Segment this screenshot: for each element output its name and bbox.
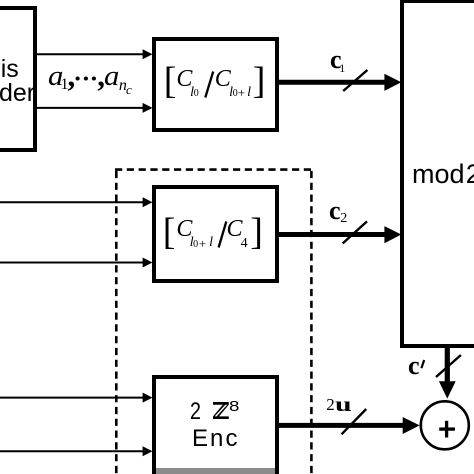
block U2: quotient encoder [C_l0+l / C_4] (152, 185, 279, 283)
wire b1 (input to C_l0+l box, top) (0, 197, 153, 207)
block U1: quotient encoder [C_l0 / C_l0+l] (152, 37, 279, 132)
wire 2u (thick bus to adder) (279, 417, 420, 434)
label 2u (326, 396, 335, 413)
label 'der' inside encoder block (0, 81, 35, 106)
slash on c1 bus (343, 70, 367, 91)
block U4: mod-2 combiner (clipped at right edge) (400, 0, 474, 348)
dashed subsystem boundary (115, 170, 313, 474)
comma after a_1 (68, 60, 76, 91)
slash on 2u bus (342, 409, 367, 434)
prime tick of label c' (421, 360, 424, 368)
slash on c' bus (436, 355, 461, 377)
wire a2 (encoder to C_l0 box, bottom) (37, 103, 153, 113)
slash on c2 bus (343, 221, 367, 243)
formula slash in U1 (205, 72, 213, 98)
label c' (408, 353, 420, 379)
label 2 of 2Z8 (190, 400, 201, 424)
plus sign of adder (439, 421, 455, 438)
wire u1 (input to Z8 encoder, top) (0, 393, 153, 403)
wire b2 (input to C_l0+l box, bottom) (0, 258, 153, 268)
dots of label a_1,...,a_nc (76, 76, 96, 80)
wire c1 (thick bus to mod-2 box) (279, 74, 401, 91)
label 2 of mod 2 (466, 161, 474, 188)
gray cropped bottom edge of encoder box (156, 468, 275, 474)
label c2 (329, 198, 341, 224)
label 'is' inside encoder block (1, 57, 19, 82)
wire a1 (encoder to C_l0 box, top) (37, 49, 153, 59)
formula [C_l0 / C_l0+l] (164, 62, 177, 100)
formula [C_l0+l / C_4] (163, 213, 176, 251)
wire c2 (thick bus to mod-2 box) (279, 226, 401, 243)
adder U5 (circle) (421, 401, 469, 449)
wire c' (thick bus from mod-2 box down to adder) (439, 346, 456, 399)
label a_nc (104, 63, 119, 91)
label Enc (192, 427, 240, 451)
formula slash in U2 (219, 222, 227, 248)
label exponent 8 (229, 399, 239, 414)
label mod (412, 161, 465, 188)
block U3: 2Z8 encoder (152, 375, 279, 474)
block: outer encoder (clipped at left edge) (0, 6, 37, 152)
wire u2 (input to Z8 encoder, bottom) (0, 446, 153, 456)
label a_1 (48, 63, 63, 91)
label c1 (330, 47, 342, 73)
comma before a_nc (97, 60, 105, 91)
glyph double-struck Z (213, 402, 229, 419)
